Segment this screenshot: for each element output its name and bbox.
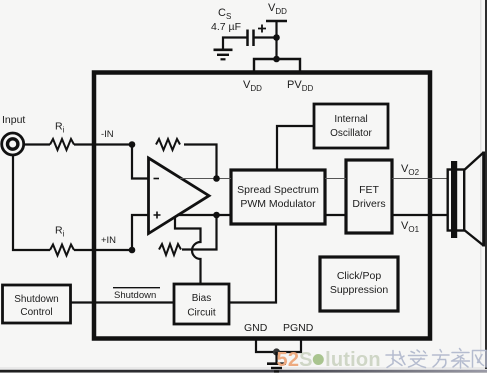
svg-text:Control: Control [20,307,52,318]
plus polarity mark [258,25,266,33]
node -IN junction [129,141,136,148]
wire PWM to FET (lower) [325,214,346,216]
resistor feedback (bottom) [159,244,181,255]
wire jack down to Ri bottom [13,155,50,250]
wire VDD rail down [275,21,277,59]
watermark 52Solution [277,349,381,371]
VDD supply rail bar [266,20,287,23]
svg-text:Circuit: Circuit [187,308,216,319]
wire shutdown control to bias [71,301,174,303]
wire GND/PGND pins to ground [256,340,301,352]
wire -IN node to op-amp inverting input [132,145,149,179]
speaker cone [482,152,485,247]
resistor Ri (top) [50,139,74,150]
svg-text:Click/Pop: Click/Pop [337,270,382,282]
speaker body [448,170,465,231]
main IC outline box [94,73,430,339]
block Bias Circuit [174,284,229,324]
capacitor CS plates [246,30,249,47]
svg-text:Oscillator: Oscillator [330,128,372,139]
input jack [2,133,24,155]
node +IN junction [129,247,136,254]
wire supply staple into VDD / PVDD pins [254,59,300,71]
svg-text:Shutdown: Shutdown [114,290,156,301]
wire jack to Ri top [24,143,50,145]
svg-text:FET: FET [359,184,379,196]
node cap junction [273,34,280,41]
svg-text:52Solution: 52Solution [277,349,381,371]
node ground junction [273,348,280,355]
svg-text:Bias: Bias [192,293,211,304]
wire FET to speaker VO2 (thin) [392,178,449,180]
svg-text:Spread Spectrum: Spread Spectrum [237,184,319,196]
wire op-amp out (upper, thin) to PWM [180,178,231,180]
block Click/Pop Suppression [320,257,398,311]
svg-text:Internal: Internal [334,114,367,125]
resistor feedback (top) [156,139,180,150]
ground (top, for CS) [214,50,233,60]
svg-text:Shutdown: Shutdown [14,294,58,305]
svg-text:PWM Modulator: PWM Modulator [240,198,316,210]
block Shutdown Control [3,285,71,323]
faint right screenshot edge [480,0,482,360]
resistor Ri (bottom) [50,245,74,256]
dark right screenshot border [485,0,487,369]
svg-text:+IN: +IN [101,235,116,246]
watermark chinese 我爱方案网 [386,349,486,369]
svg-text:Input: Input [2,114,25,126]
block Internal Oscillator [314,104,388,148]
wire down to ground [275,352,277,363]
svg-text:GND: GND [244,322,268,334]
wire bias to PWM bottom [229,224,276,303]
node output upper [213,175,220,182]
svg-text:PGND: PGND [283,322,314,334]
wire Ri to +IN node [74,249,133,251]
wire PWM to FET (thin upper) [325,178,346,180]
wire feedback bottom to lower output node [182,215,217,250]
svg-text:Suppression: Suppression [330,284,389,296]
ground (bottom) [267,364,286,372]
wire bias tap from op-amp with hop [175,218,201,285]
wire feedback top to output node [184,145,217,180]
block FET Drivers [346,160,392,233]
wire cap left plate to ground [223,38,247,49]
node output lower [213,212,220,219]
block Spread Spectrum PWM Modulator [231,170,325,224]
op-amp U1 [149,158,210,234]
svg-text:-IN: -IN [101,129,114,140]
wire oscillator to PWM modulator [277,126,314,170]
wire FET to speaker VO1 [392,214,449,216]
wire Ri to -IN node [74,143,133,145]
svg-text:Drivers: Drivers [352,198,385,210]
wire +IN node to op-amp non-inverting input [132,215,149,250]
wire cap right plate to junction [254,36,277,38]
wire op-amp out (lower) to PWM [177,214,231,216]
svg-text:4.7 µF: 4.7 µF [211,21,241,33]
node staple junction [273,56,280,63]
